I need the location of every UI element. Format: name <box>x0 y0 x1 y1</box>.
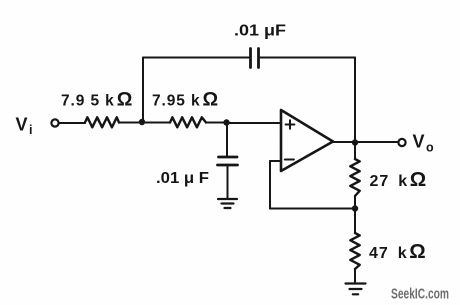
svg-text:7.95 kΩ: 7.95 kΩ <box>152 89 218 111</box>
op-amp plus sign <box>286 120 295 129</box>
wire R1 to node A <box>119 122 142 124</box>
op-amp minus sign <box>285 159 294 161</box>
wire node B to op-amp + input <box>227 122 282 124</box>
ground G2 <box>346 284 366 295</box>
wire R2 to node B <box>206 122 227 124</box>
input terminal Vi <box>51 119 58 126</box>
wire node A up to feedback cap <box>142 58 144 123</box>
svg-text:27 kΩ: 27 kΩ <box>370 168 427 191</box>
wire R4 to ground <box>354 269 356 283</box>
svg-text:47 kΩ: 47 kΩ <box>369 240 426 263</box>
wire input to R1 <box>59 122 85 124</box>
svg-text:Vi: Vi <box>16 115 33 138</box>
svg-text:.01 μ F: .01 μ F <box>156 170 209 187</box>
divider node junction dot <box>352 205 358 211</box>
wire op-amp output to terminal <box>333 141 398 143</box>
wire R3 to divider node <box>354 196 356 209</box>
capacitor C1 .01uF plates <box>251 49 259 68</box>
wire top left to C1 <box>143 57 251 59</box>
resistor R1 7.95k zigzag <box>85 117 119 127</box>
svg-text:SeekIC.com: SeekIC.com <box>391 287 449 303</box>
wire right vertical down to output node <box>354 58 356 143</box>
wire node B down to C2 <box>226 123 228 157</box>
svg-text:7.9 5 kΩ: 7.9 5 kΩ <box>61 89 132 111</box>
resistor R3 27k zigzag <box>350 159 359 196</box>
capacitor C2 .01uF plates <box>218 157 238 165</box>
wire op-amp minus input <box>270 160 281 162</box>
wire divider node to R4 <box>354 209 356 234</box>
output terminal Vo <box>398 139 405 146</box>
resistor R4 47k zigzag <box>350 233 359 269</box>
wire output node to R3 <box>354 143 356 160</box>
wire feedback horizontal to divider node <box>270 208 355 210</box>
node B junction dot <box>223 119 229 125</box>
svg-text:.01 μF: .01 μF <box>234 23 286 40</box>
svg-text:Vo: Vo <box>413 132 435 155</box>
wire C2 to ground <box>227 165 229 199</box>
output node dot <box>352 139 358 145</box>
wire C1 to right vertical <box>259 57 356 59</box>
ground G1 <box>218 199 237 208</box>
resistor R2 7.95k zigzag <box>170 117 206 127</box>
op-amp U1 triangle <box>281 110 333 171</box>
wire node A to R2 <box>142 122 170 124</box>
wire feedback vertical <box>269 161 271 209</box>
node A junction dot <box>139 119 145 125</box>
